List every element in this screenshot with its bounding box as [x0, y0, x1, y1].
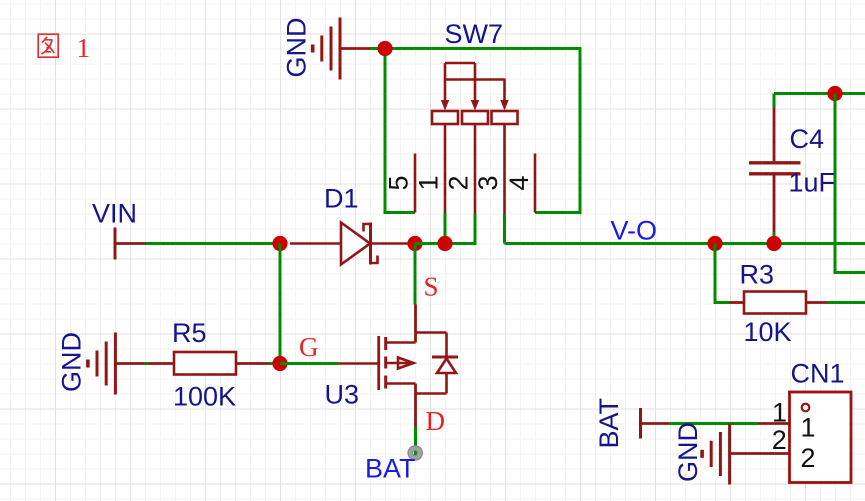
wire R5 to gate junction — [270, 362, 280, 365]
svg-text:GND: GND — [673, 422, 703, 482]
svg-text:1uF: 1uF — [789, 168, 836, 198]
svg-text:10K: 10K — [744, 317, 792, 347]
svg-text:2: 2 — [772, 425, 787, 455]
svg-text:BAT: BAT — [594, 398, 624, 449]
svg-text:CN1: CN1 — [791, 359, 845, 389]
figure label 图 1 — [38, 34, 58, 57]
wire GND to CN1 pin2 — [730, 452, 790, 455]
SW7 pin 1 — [444, 124, 447, 213]
svg-text:D1: D1 — [324, 184, 359, 214]
wire junction to SW7 pin 5 (left loop) — [385, 49, 415, 213]
wire SW7 pin1 down — [444, 213, 447, 244]
net port VIN — [115, 228, 146, 260]
junction SW7 pin1 node — [437, 236, 452, 251]
svg-text:3: 3 — [473, 175, 503, 190]
SW7 pin 5 — [414, 154, 417, 213]
SW7 pin 2 — [474, 124, 477, 214]
svg-text:BAT: BAT — [365, 454, 416, 484]
R3 right pin — [806, 301, 827, 304]
junction C4 top right — [827, 86, 842, 101]
resistor R5 — [174, 352, 236, 375]
svg-text:GND: GND — [57, 332, 87, 392]
svg-text:100K: 100K — [173, 382, 236, 412]
svg-text:R5: R5 — [172, 318, 207, 348]
svg-text:S: S — [424, 272, 439, 302]
wire VIN node down to gate node — [279, 244, 282, 364]
junction R3 branch — [707, 236, 722, 251]
diode D1 (schottky) — [290, 223, 409, 265]
CN1 key circle — [802, 404, 810, 412]
svg-text:5: 5 — [384, 175, 414, 190]
R5 right pin — [236, 362, 270, 365]
svg-text:R3: R3 — [740, 260, 775, 290]
wire GND-top to junction — [370, 47, 385, 50]
wire S of U3 — [414, 244, 417, 305]
junction at GND top — [377, 41, 392, 56]
R3 left pin — [729, 301, 744, 304]
junction D1 cathode — [407, 236, 422, 251]
svg-text:C4: C4 — [790, 124, 825, 154]
wire V-O down to R3 — [715, 244, 729, 303]
wire cathode bus — [415, 214, 475, 244]
svg-text:1: 1 — [77, 33, 91, 63]
wire right branch down — [835, 94, 865, 273]
wire SW7 pin3 down to V-O — [503, 214, 506, 244]
junction VIN node — [272, 236, 287, 251]
connector CN1 — [790, 392, 852, 483]
svg-text:G: G — [299, 332, 319, 362]
wire D of U3 to BAT — [414, 427, 417, 456]
svg-text:U3: U3 — [325, 380, 360, 410]
wire SW7 pin2 down to bus — [474, 214, 477, 244]
wire V-O bus — [505, 242, 865, 245]
svg-text:D: D — [426, 406, 446, 436]
svg-text:V-O: V-O — [611, 216, 658, 246]
svg-text:1: 1 — [772, 397, 787, 427]
SW7 actuator arrows — [441, 100, 509, 111]
wire VIN to junction — [146, 242, 280, 245]
wire GND to R5 (short) — [144, 362, 148, 365]
svg-text:VIN: VIN — [92, 199, 137, 229]
wire C4 bottom — [773, 232, 776, 244]
CN1 pin 1 stub — [759, 422, 790, 425]
svg-text:2: 2 — [801, 443, 816, 473]
svg-text:SW7: SW7 — [445, 19, 504, 49]
wire C4 top corner — [773, 94, 776, 108]
svg-text:1: 1 — [801, 413, 816, 443]
SW7 pin 4 — [534, 154, 537, 213]
switch SW7 body — [432, 63, 518, 124]
svg-text:2: 2 — [444, 175, 474, 190]
capacitor C4 — [749, 108, 801, 233]
wire C4 top — [774, 92, 865, 95]
junction C4 bottom — [766, 236, 781, 251]
resistor R3 — [744, 292, 806, 314]
SW7 pin 3 — [503, 124, 506, 214]
transistor U3 P-MOSFET — [339, 305, 447, 428]
wire BAT to CN1 pin1 — [669, 422, 759, 425]
net port BAT — [641, 408, 670, 439]
wire R3 right — [827, 301, 865, 304]
svg-text:1: 1 — [414, 175, 444, 190]
junction gate node — [272, 356, 287, 371]
wire junction to SW7 pin 4 (right loop) — [385, 49, 580, 213]
ground symbol GND (R5) — [88, 333, 174, 395]
wire gate node to U3 gate — [280, 362, 339, 365]
dangling end dot BAT — [408, 446, 422, 460]
ground symbol GND (CN1) — [702, 424, 730, 485]
svg-text:4: 4 — [504, 175, 534, 190]
body diode of U3 — [432, 357, 458, 373]
ground symbol GND top — [313, 18, 370, 80]
svg-text:GND: GND — [282, 18, 312, 78]
